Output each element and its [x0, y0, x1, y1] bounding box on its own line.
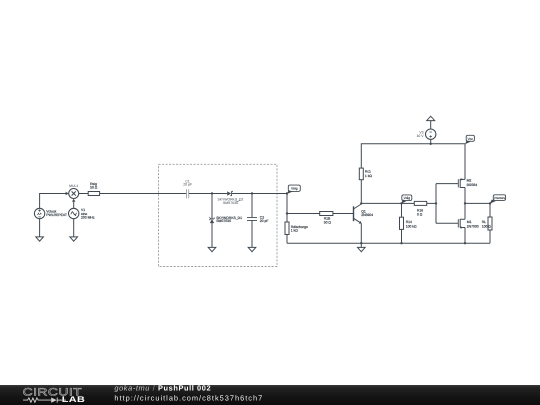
- junction V3 tee: [430, 143, 432, 145]
- junction M1 source tee: [464, 242, 466, 244]
- ground (V1): [70, 237, 78, 241]
- svg-text:http://circuitlab.com/c8tk537h: http://circuitlab.com/c8tk537h6tch7: [114, 394, 263, 403]
- CircuitLab logo CIRCUIT: [23, 387, 83, 399]
- label R14 100 kOhm: [406, 220, 417, 228]
- node junction (C2 branch): [251, 192, 253, 194]
- svg-text:goka-tmu / PushPull 002: goka-tmu / PushPull 002: [114, 383, 211, 392]
- svg-text:LAB: LAB: [62, 395, 85, 404]
- label C1 20 pF: [183, 179, 192, 186]
- junction base rail tee: [286, 212, 288, 214]
- wire RL bottom to rail corner: [489, 230, 491, 243]
- capacitor C1 (series): [187, 189, 189, 198]
- svg-text:50 Ω: 50 Ω: [90, 186, 98, 190]
- net flag Vdig: [401, 195, 412, 204]
- svg-text:Vdig: Vdig: [404, 196, 411, 200]
- dashed annotation box: [159, 164, 278, 266]
- resistor R14: [401, 203, 403, 217]
- svg-text:100 kΩ: 100 kΩ: [406, 224, 417, 228]
- arrow into MUL1 left input: [66, 192, 69, 195]
- wire M2 drain down to output node: [464, 188, 466, 204]
- wire C2 branch down: [251, 194, 253, 218]
- resistor R16: [414, 201, 426, 205]
- ground (D1): [208, 247, 216, 251]
- wire Rsig to C1: [100, 193, 187, 195]
- junction collector tee: [360, 202, 362, 204]
- label Q1 2N3904: [361, 209, 373, 217]
- wire C1 to D2 anode: [189, 193, 228, 195]
- svg-text:1 kΩ: 1 kΩ: [291, 228, 299, 232]
- label Rdischarge 1 kOhm: [291, 225, 308, 232]
- wire Vtrig node down to base rail: [286, 194, 288, 214]
- node Vtrig junction: [286, 192, 288, 194]
- label leader line D2: [236, 200, 240, 201]
- diode D2 SKYWORKS SMS7630 (series, pointing right, schottky): [227, 191, 233, 195]
- net flag Vmotors: [490, 195, 506, 204]
- svg-text:Vcc: Vcc: [468, 137, 474, 141]
- node junction (D1 branch): [211, 192, 213, 194]
- wire Rdischarge to bottom rail: [286, 235, 288, 244]
- wire R14 bottom to rail: [401, 229, 403, 243]
- transistor Q1 2N3904 (NPN): [354, 204, 362, 224]
- arrow into MUL1 bottom input: [72, 199, 75, 202]
- wire Q1 emitter down to rail: [360, 224, 362, 244]
- svg-text:SMS7630: SMS7630: [216, 219, 231, 223]
- wire D1 branch down: [211, 194, 213, 219]
- svg-text:0 Ω: 0 Ω: [417, 213, 423, 217]
- wire D1 to ground: [211, 223, 213, 248]
- resistor R1B: [320, 212, 333, 216]
- svg-text:SMS7630: SMS7630: [223, 201, 238, 205]
- label C2 20 pF: [260, 216, 269, 223]
- wire Vclock bottom to ground: [39, 219, 41, 238]
- wire Vclock top to MUL1 input: [40, 194, 66, 209]
- wire MUL1 output to Rsig: [79, 193, 89, 195]
- wire M2 source up to Vcc: [464, 144, 466, 180]
- junction output node: [464, 202, 466, 204]
- diode D1 SKYWORKS SMS7630 (shunt, pointing up, schottky): [210, 218, 214, 224]
- wire gate to M1: [436, 222, 458, 224]
- label Vclock PWLREPEAT: [46, 209, 67, 217]
- junction gate tee: [435, 202, 437, 204]
- svg-text:2N7000: 2N7000: [467, 224, 479, 228]
- wire M1 source down to rail: [464, 228, 466, 244]
- svg-text:200 MHz: 200 MHz: [81, 215, 95, 219]
- label V1 sine 200 MHz: [81, 208, 95, 219]
- voltage source Vclock (PWLREPEAT): [34, 208, 44, 218]
- label M2 BSS84: [467, 179, 478, 187]
- label Rsig 50 Ohm: [90, 182, 98, 190]
- wire Q1 collector up to Rc1: [360, 180, 362, 204]
- svg-text:Vtrig: Vtrig: [291, 187, 298, 191]
- label M1 2N7000: [467, 220, 479, 228]
- voltage source V1 (sine 200 MHz): [69, 208, 79, 218]
- net flag Vcc: [465, 135, 475, 144]
- wire output node to RL: [465, 202, 490, 204]
- label leader line D1: [209, 217, 211, 219]
- svg-text:Rc1: Rc1: [365, 170, 371, 174]
- svg-text:100 Ω: 100 Ω: [482, 224, 492, 228]
- label SKYWORKS_D1 SMS7630: [216, 216, 242, 223]
- wire collector rail to Vdig node: [361, 202, 401, 204]
- wire Rc1 top to Vcc rail corner: [361, 144, 465, 168]
- svg-text:20 pF: 20 pF: [260, 219, 269, 223]
- wire R16 to gate node: [427, 202, 436, 204]
- wire gate vertical: [435, 184, 437, 224]
- multiplier MUL1: [69, 189, 79, 199]
- voltage source V3 10 V: [426, 129, 436, 139]
- label RL 100 Ohm: [482, 220, 492, 228]
- svg-text:10 V: 10 V: [417, 134, 425, 138]
- resistor Rc1: [359, 168, 363, 180]
- svg-text:20 pF: 20 pF: [183, 182, 192, 186]
- label Rc1 1 kOhm: [365, 170, 373, 178]
- wire V3 bottom to rail: [430, 139, 432, 143]
- wire gate to M2: [436, 183, 458, 185]
- transistor M2 BSS84 (PMOS): [458, 178, 465, 187]
- wire V3 top to supply arrow: [430, 121, 432, 129]
- svg-text:BSS84: BSS84: [467, 183, 478, 187]
- svg-text:Vmotors: Vmotors: [494, 196, 506, 200]
- label V3 10 V: [417, 131, 425, 139]
- wire Vdig node to R16: [402, 202, 415, 204]
- footer bar: [0, 385, 540, 405]
- ground (C2): [248, 247, 256, 251]
- wire D2 cathode to C2 node: [232, 193, 287, 195]
- wire bottom ground rail: [287, 242, 490, 244]
- CircuitLab logo resistor-diode squiggle: [23, 398, 66, 403]
- CircuitLab logo LAB: [62, 395, 85, 404]
- svg-text:PWLREPEAT: PWLREPEAT: [46, 213, 67, 217]
- label R16 0 Ohm: [417, 209, 423, 217]
- capacitor C2 (shunt): [247, 217, 257, 220]
- resistor Rsig: [88, 192, 99, 196]
- wire R1B to Q1 base: [333, 213, 354, 215]
- junction emitter/ground tee: [360, 242, 362, 244]
- label SKYWORKS_D2 SMS7630: [217, 197, 243, 204]
- resistor RL: [489, 203, 491, 217]
- wire C2 to ground: [251, 221, 253, 249]
- svg-text:MUL1: MUL1: [69, 184, 78, 188]
- power supply arrow: [427, 116, 435, 120]
- junction Vdig tee: [400, 202, 402, 204]
- junction RL top tee: [489, 202, 491, 204]
- svg-text:1 kΩ: 1 kΩ: [365, 174, 373, 178]
- junction R14 bottom tee: [400, 242, 402, 244]
- net flag Vtrig: [287, 185, 301, 194]
- ground (main rail): [358, 243, 366, 252]
- label R1B 50 Ohm: [324, 217, 332, 225]
- transistor M1 2N7000 (NMOS): [458, 219, 465, 229]
- wire to R1B: [287, 213, 320, 215]
- wire V1 bottom to ground: [73, 219, 75, 238]
- wire M1 drain up to output node: [464, 203, 466, 219]
- svg-text:2N3904: 2N3904: [361, 213, 373, 217]
- svg-text:50 Ω: 50 Ω: [324, 221, 332, 225]
- wire V1 top to MUL1 bottom arrow: [73, 202, 75, 209]
- ground (Vclock): [36, 237, 44, 241]
- resistor Rdischarge: [286, 214, 288, 223]
